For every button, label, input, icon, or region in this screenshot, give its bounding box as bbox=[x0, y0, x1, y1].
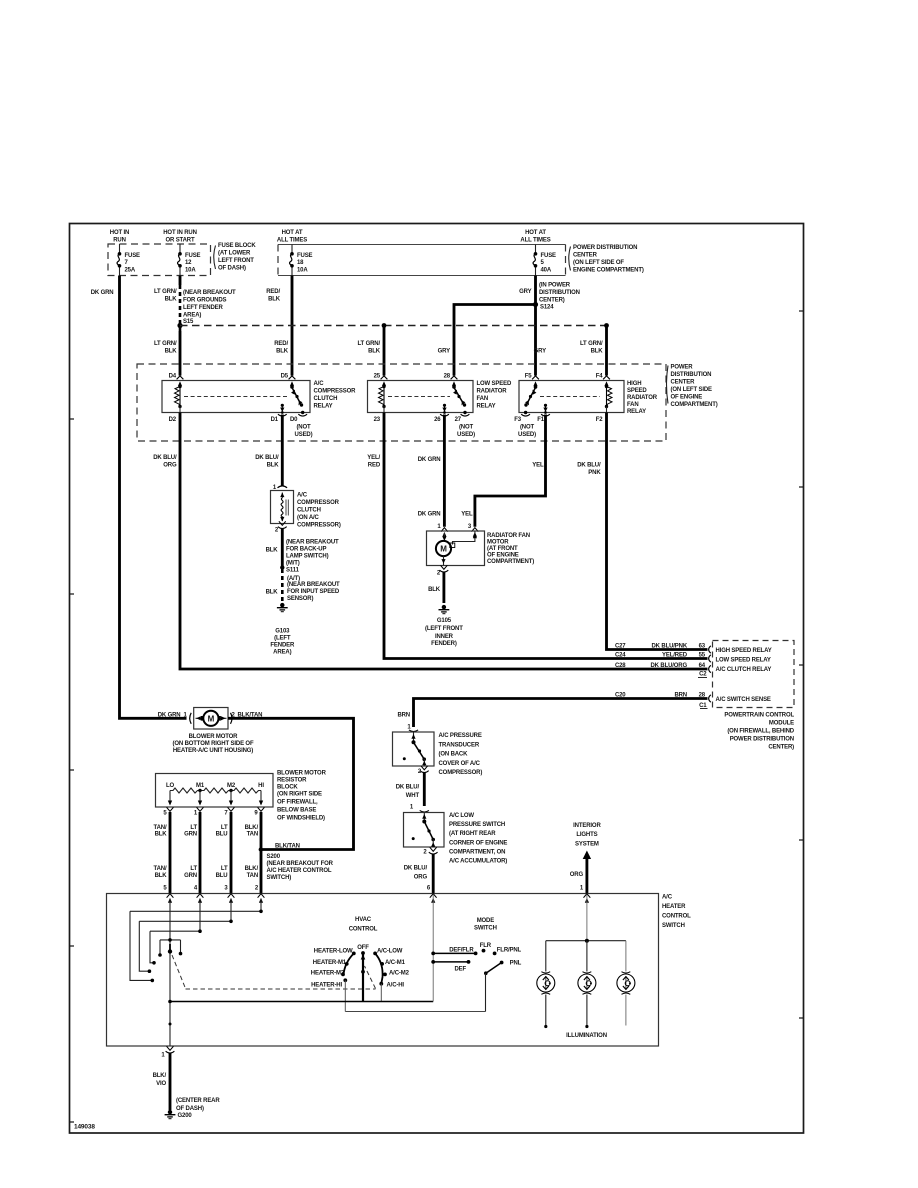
svg-text:BLK/TAN: BLK/TAN bbox=[275, 844, 300, 850]
svg-text:PNL: PNL bbox=[510, 961, 522, 967]
svg-text:OFF: OFF bbox=[357, 945, 369, 951]
svg-text:CLUTCH: CLUTCH bbox=[314, 396, 338, 402]
svg-text:BLK/: BLK/ bbox=[245, 825, 259, 831]
svg-text:BLK: BLK bbox=[165, 297, 178, 303]
svg-text:YEL/: YEL/ bbox=[367, 455, 380, 461]
svg-text:(M/T): (M/T) bbox=[286, 561, 300, 567]
svg-text:CENTER: CENTER bbox=[671, 380, 696, 386]
svg-text:BLOWER MOTOR: BLOWER MOTOR bbox=[189, 734, 239, 740]
svg-text:(NEAR BREAKOUT: (NEAR BREAKOUT bbox=[286, 540, 339, 546]
svg-text:ILLUMINATION: ILLUMINATION bbox=[566, 1033, 607, 1039]
svg-text:MODULE: MODULE bbox=[769, 721, 794, 727]
svg-text:D4: D4 bbox=[169, 374, 177, 380]
svg-text:A/C SWITCH SENSE: A/C SWITCH SENSE bbox=[716, 697, 771, 703]
svg-text:GRY: GRY bbox=[534, 349, 546, 355]
svg-text:D2: D2 bbox=[169, 417, 177, 423]
svg-text:DK BLU/: DK BLU/ bbox=[404, 866, 428, 872]
svg-text:RELAY: RELAY bbox=[627, 409, 646, 415]
svg-text:BLK: BLK bbox=[155, 832, 168, 838]
svg-text:18: 18 bbox=[297, 260, 304, 266]
svg-text:S111: S111 bbox=[286, 568, 300, 574]
svg-text:C2: C2 bbox=[699, 672, 707, 678]
svg-text:BRN: BRN bbox=[397, 713, 410, 719]
svg-text:OF WINDSHIELD): OF WINDSHIELD) bbox=[277, 816, 325, 822]
svg-text:YEL/RED: YEL/RED bbox=[662, 653, 688, 659]
svg-text:RED/: RED/ bbox=[274, 341, 288, 347]
svg-text:DEF: DEF bbox=[454, 967, 466, 973]
svg-text:COMPARTMENT, ON: COMPARTMENT, ON bbox=[449, 849, 505, 855]
svg-text:ORG: ORG bbox=[570, 872, 584, 878]
svg-text:OF ENGINE: OF ENGINE bbox=[487, 553, 519, 559]
svg-text:FLR: FLR bbox=[480, 943, 492, 949]
svg-text:FAN: FAN bbox=[627, 402, 639, 408]
svg-text:C28: C28 bbox=[615, 663, 626, 669]
svg-text:CORNER OF ENGINE: CORNER OF ENGINE bbox=[449, 840, 507, 846]
svg-text:LO: LO bbox=[166, 783, 175, 789]
svg-text:HIGH: HIGH bbox=[627, 381, 641, 387]
svg-text:F1: F1 bbox=[537, 417, 545, 423]
svg-text:BLK: BLK bbox=[591, 349, 604, 355]
svg-text:25A: 25A bbox=[125, 268, 136, 274]
svg-text:HIGH SPEED RELAY: HIGH SPEED RELAY bbox=[716, 648, 772, 654]
svg-text:F2: F2 bbox=[596, 417, 604, 423]
svg-text:LAMP SWITCH): LAMP SWITCH) bbox=[286, 554, 329, 560]
svg-text:10A: 10A bbox=[185, 268, 196, 274]
svg-text:PNK: PNK bbox=[588, 470, 601, 476]
svg-text:HVAC: HVAC bbox=[355, 917, 372, 923]
svg-text:M: M bbox=[208, 714, 215, 723]
svg-text:CENTER): CENTER) bbox=[539, 298, 565, 304]
svg-text:A/C: A/C bbox=[314, 381, 325, 387]
svg-text:A/C-M1: A/C-M1 bbox=[385, 960, 406, 966]
svg-text:BLK: BLK bbox=[266, 548, 279, 554]
svg-text:149038: 149038 bbox=[74, 1124, 95, 1131]
svg-text:VIO: VIO bbox=[156, 1081, 166, 1087]
svg-text:ALL TIMES: ALL TIMES bbox=[520, 238, 550, 244]
svg-text:BLK: BLK bbox=[267, 463, 280, 469]
svg-text:DK BLU/: DK BLU/ bbox=[255, 455, 279, 461]
svg-text:FUSE: FUSE bbox=[125, 253, 141, 259]
svg-text:INTERIOR: INTERIOR bbox=[573, 823, 601, 829]
svg-text:OF ENGINE: OF ENGINE bbox=[671, 395, 703, 401]
svg-text:12: 12 bbox=[185, 260, 192, 266]
svg-text:(ON LEFT SIDE OF: (ON LEFT SIDE OF bbox=[573, 260, 624, 266]
svg-text:(ON RIGHT SIDE: (ON RIGHT SIDE bbox=[277, 792, 322, 798]
svg-text:POWER: POWER bbox=[671, 365, 694, 371]
svg-text:POWER DISTRIBUTION: POWER DISTRIBUTION bbox=[573, 245, 637, 251]
svg-text:RELAY: RELAY bbox=[314, 404, 333, 410]
svg-text:AREA): AREA) bbox=[273, 650, 291, 656]
svg-text:YEL: YEL bbox=[461, 512, 473, 518]
svg-text:LT GRN/: LT GRN/ bbox=[154, 341, 177, 347]
svg-text:MOTOR: MOTOR bbox=[487, 540, 509, 546]
svg-text:BLU: BLU bbox=[216, 832, 228, 838]
svg-text:BLK: BLK bbox=[266, 590, 279, 596]
svg-text:DK GRN: DK GRN bbox=[418, 457, 441, 463]
svg-text:D0: D0 bbox=[290, 417, 298, 423]
svg-text:TRANSDUCER: TRANSDUCER bbox=[439, 742, 480, 748]
svg-text:HI: HI bbox=[258, 783, 264, 789]
svg-text:OF FIREWALL,: OF FIREWALL, bbox=[277, 800, 318, 806]
svg-text:CENTER): CENTER) bbox=[768, 745, 794, 751]
svg-text:(NOT: (NOT bbox=[296, 424, 311, 430]
svg-text:RED: RED bbox=[368, 463, 381, 469]
svg-text:27: 27 bbox=[455, 417, 462, 423]
svg-text:(AT RIGHT REAR: (AT RIGHT REAR bbox=[449, 831, 496, 837]
svg-text:FOR BACK-UP: FOR BACK-UP bbox=[286, 547, 326, 553]
svg-text:MODE: MODE bbox=[477, 918, 495, 924]
svg-text:RUN: RUN bbox=[113, 238, 126, 244]
svg-text:BLK/: BLK/ bbox=[153, 1073, 167, 1079]
svg-text:COMPRESSOR: COMPRESSOR bbox=[314, 389, 357, 395]
svg-text:HOT IN: HOT IN bbox=[110, 230, 129, 236]
svg-text:(AT FRONT: (AT FRONT bbox=[487, 546, 518, 552]
svg-text:COMPRESSOR): COMPRESSOR) bbox=[297, 523, 341, 529]
svg-text:(ON BACK: (ON BACK bbox=[439, 752, 469, 758]
svg-text:A/C: A/C bbox=[297, 493, 308, 499]
svg-text:FUSE: FUSE bbox=[185, 253, 201, 259]
svg-text:(IN POWER: (IN POWER bbox=[539, 283, 571, 289]
svg-text:YEL: YEL bbox=[532, 463, 544, 469]
svg-text:HOT AT: HOT AT bbox=[525, 230, 546, 236]
svg-text:(ON FIREWALL, BEHIND: (ON FIREWALL, BEHIND bbox=[727, 729, 794, 735]
svg-text:USED): USED) bbox=[518, 432, 536, 438]
svg-text:A/C-LOW: A/C-LOW bbox=[377, 948, 403, 954]
svg-text:ALL TIMES: ALL TIMES bbox=[277, 238, 307, 244]
svg-text:DISTRIBUTION: DISTRIBUTION bbox=[671, 372, 712, 378]
svg-text:A/C: A/C bbox=[662, 895, 673, 901]
svg-text:40A: 40A bbox=[541, 268, 552, 274]
svg-text:DK BLU/ORG: DK BLU/ORG bbox=[651, 663, 688, 669]
svg-text:M2: M2 bbox=[227, 783, 236, 789]
svg-text:OF DASH): OF DASH) bbox=[218, 266, 246, 272]
svg-text:S124: S124 bbox=[540, 305, 554, 311]
svg-text:DK BLU/: DK BLU/ bbox=[577, 463, 601, 469]
svg-text:FENDER: FENDER bbox=[270, 643, 295, 649]
svg-text:DK BLU/PNK: DK BLU/PNK bbox=[652, 644, 688, 650]
svg-text:A/C ACCUMULATOR): A/C ACCUMULATOR) bbox=[449, 859, 507, 865]
svg-text:RADIATOR: RADIATOR bbox=[627, 395, 658, 401]
svg-text:CONTROL: CONTROL bbox=[349, 927, 378, 933]
svg-text:COMPARTMENT): COMPARTMENT) bbox=[671, 402, 718, 408]
svg-text:DK BLU/: DK BLU/ bbox=[153, 455, 177, 461]
svg-text:G103: G103 bbox=[275, 629, 290, 635]
svg-text:G200: G200 bbox=[178, 1113, 193, 1119]
svg-text:SPEED: SPEED bbox=[627, 388, 647, 394]
svg-text:(LEFT FRONT: (LEFT FRONT bbox=[425, 626, 463, 632]
svg-text:LT GRN/: LT GRN/ bbox=[154, 289, 177, 295]
svg-text:FUSE: FUSE bbox=[541, 253, 557, 259]
svg-text:LT: LT bbox=[221, 825, 228, 831]
svg-text:(LEFT: (LEFT bbox=[274, 636, 291, 642]
svg-text:(CENTER REAR: (CENTER REAR bbox=[176, 1098, 220, 1104]
svg-text:DK BLU/: DK BLU/ bbox=[396, 785, 420, 791]
svg-text:LEFT FENDER: LEFT FENDER bbox=[183, 305, 223, 311]
svg-text:TAN/: TAN/ bbox=[154, 825, 167, 831]
svg-text:HEATER: HEATER bbox=[662, 904, 686, 910]
svg-text:F5: F5 bbox=[525, 374, 533, 380]
svg-text:ORG: ORG bbox=[414, 875, 428, 881]
svg-text:LT: LT bbox=[190, 825, 197, 831]
svg-text:PRESSURE SWITCH: PRESSURE SWITCH bbox=[449, 822, 505, 828]
svg-text:(NEAR BREAKOUT: (NEAR BREAKOUT bbox=[183, 290, 236, 296]
svg-text:LOW SPEED: LOW SPEED bbox=[477, 381, 512, 387]
svg-text:(NEAR BREAKOUT: (NEAR BREAKOUT bbox=[287, 582, 340, 588]
svg-text:POWER DISTRIBUTION: POWER DISTRIBUTION bbox=[730, 737, 794, 743]
svg-text:HOT IN RUN: HOT IN RUN bbox=[163, 230, 197, 236]
svg-text:23: 23 bbox=[374, 417, 381, 423]
svg-text:F4: F4 bbox=[596, 374, 604, 380]
svg-text:BLK: BLK bbox=[155, 873, 168, 879]
svg-text:HEATER-A/C UNIT HOUSING): HEATER-A/C UNIT HOUSING) bbox=[173, 748, 253, 754]
svg-text:DK GRN: DK GRN bbox=[91, 290, 114, 296]
svg-text:SENSOR): SENSOR) bbox=[287, 596, 313, 602]
svg-text:BLK: BLK bbox=[165, 349, 178, 355]
svg-text:GRN: GRN bbox=[184, 873, 197, 879]
svg-text:GRY: GRY bbox=[519, 289, 531, 295]
svg-text:C24: C24 bbox=[615, 653, 626, 659]
svg-text:F3: F3 bbox=[514, 417, 522, 423]
svg-text:LT: LT bbox=[221, 866, 228, 872]
svg-text:COMPARTMENT): COMPARTMENT) bbox=[487, 559, 534, 565]
svg-text:BLK/: BLK/ bbox=[245, 866, 259, 872]
svg-text:BLOWER MOTOR: BLOWER MOTOR bbox=[277, 771, 327, 777]
svg-text:ENGINE COMPARTMENT): ENGINE COMPARTMENT) bbox=[573, 267, 644, 273]
svg-text:FLR/PNL: FLR/PNL bbox=[497, 947, 522, 953]
svg-text:BLK: BLK bbox=[428, 587, 441, 593]
svg-text:(ON A/C: (ON A/C bbox=[297, 515, 320, 521]
svg-text:28: 28 bbox=[444, 374, 451, 380]
svg-text:FENDER): FENDER) bbox=[431, 641, 457, 647]
svg-text:COMPRESSOR): COMPRESSOR) bbox=[439, 770, 483, 776]
svg-text:SWITCH: SWITCH bbox=[474, 926, 497, 932]
svg-text:OR START: OR START bbox=[165, 238, 195, 244]
svg-text:USED): USED) bbox=[457, 432, 475, 438]
svg-text:RADIATOR FAN: RADIATOR FAN bbox=[487, 533, 530, 539]
svg-text:M: M bbox=[440, 545, 447, 554]
svg-text:64: 64 bbox=[699, 663, 706, 669]
svg-text:(NOT: (NOT bbox=[459, 424, 474, 430]
svg-text:COMPRESSOR: COMPRESSOR bbox=[297, 500, 340, 506]
svg-text:RESISTOR: RESISTOR bbox=[277, 778, 307, 784]
svg-text:TAN: TAN bbox=[247, 873, 258, 879]
svg-text:DISTRIBUTION: DISTRIBUTION bbox=[539, 290, 580, 296]
svg-text:FOR INPUT SPEED: FOR INPUT SPEED bbox=[287, 589, 340, 595]
svg-text:S200: S200 bbox=[267, 854, 281, 860]
svg-text:S15: S15 bbox=[183, 319, 194, 325]
svg-text:(NOT: (NOT bbox=[520, 424, 535, 430]
svg-text:TAN: TAN bbox=[247, 832, 258, 838]
svg-text:A/C-M2: A/C-M2 bbox=[389, 971, 410, 977]
svg-text:TAN/: TAN/ bbox=[154, 866, 167, 872]
svg-text:SWITCH): SWITCH) bbox=[267, 875, 292, 881]
svg-text:BELOW BASE: BELOW BASE bbox=[277, 808, 316, 814]
svg-text:ORG: ORG bbox=[163, 463, 177, 469]
svg-text:SYSTEM: SYSTEM bbox=[575, 842, 599, 848]
svg-text:CLUTCH: CLUTCH bbox=[297, 508, 321, 514]
svg-text:HEATER-M2: HEATER-M2 bbox=[311, 971, 345, 977]
svg-text:BLK: BLK bbox=[368, 349, 381, 355]
svg-text:COVER OF A/C: COVER OF A/C bbox=[439, 761, 481, 767]
svg-text:55: 55 bbox=[699, 653, 706, 659]
svg-text:26: 26 bbox=[434, 417, 441, 423]
svg-text:A/C LOW: A/C LOW bbox=[449, 813, 474, 819]
svg-text:FAN: FAN bbox=[477, 396, 489, 402]
svg-text:A/C-HI: A/C-HI bbox=[387, 982, 405, 988]
svg-text:LEFT FRONT: LEFT FRONT bbox=[218, 258, 254, 264]
svg-text:HEATER-M1: HEATER-M1 bbox=[313, 960, 347, 966]
svg-text:LT GRN/: LT GRN/ bbox=[357, 341, 380, 347]
svg-text:A/C CLUTCH RELAY: A/C CLUTCH RELAY bbox=[716, 667, 772, 673]
svg-text:HOT AT: HOT AT bbox=[282, 230, 303, 236]
svg-text:M1: M1 bbox=[196, 783, 205, 789]
svg-text:BLOCK: BLOCK bbox=[277, 785, 298, 791]
svg-text:A/C HEATER CONTROL: A/C HEATER CONTROL bbox=[267, 868, 332, 874]
svg-text:FUSE BLOCK: FUSE BLOCK bbox=[218, 243, 256, 249]
svg-text:25: 25 bbox=[374, 374, 381, 380]
svg-text:CONTROL: CONTROL bbox=[662, 914, 691, 920]
svg-text:RELAY: RELAY bbox=[477, 404, 496, 410]
svg-text:RED/: RED/ bbox=[266, 289, 280, 295]
svg-text:WHT: WHT bbox=[406, 793, 420, 799]
svg-text:GRY: GRY bbox=[438, 349, 450, 355]
svg-text:D5: D5 bbox=[281, 374, 289, 380]
svg-text:FUSE: FUSE bbox=[297, 253, 313, 259]
svg-text:63: 63 bbox=[699, 644, 706, 650]
svg-text:BLU: BLU bbox=[216, 873, 228, 879]
svg-text:USED): USED) bbox=[295, 432, 313, 438]
svg-text:GRN: GRN bbox=[184, 832, 197, 838]
svg-text:LT: LT bbox=[190, 866, 197, 872]
svg-text:(ON BOTTOM RIGHT SIDE OF: (ON BOTTOM RIGHT SIDE OF bbox=[173, 741, 254, 747]
svg-text:POWERTRAIN CONTROL: POWERTRAIN CONTROL bbox=[724, 713, 794, 719]
svg-text:A/C PRESSURE: A/C PRESSURE bbox=[439, 733, 482, 739]
svg-text:LT GRN/: LT GRN/ bbox=[580, 341, 603, 347]
svg-text:(NEAR BREAKOUT FOR: (NEAR BREAKOUT FOR bbox=[267, 861, 334, 867]
svg-text:(AT LOWER: (AT LOWER bbox=[218, 251, 251, 257]
svg-text:DK GRN: DK GRN bbox=[418, 512, 441, 518]
svg-text:DK GRN: DK GRN bbox=[158, 713, 181, 719]
svg-text:LIGHTS: LIGHTS bbox=[576, 832, 597, 838]
svg-text:SWITCH: SWITCH bbox=[662, 923, 685, 929]
svg-text:10A: 10A bbox=[297, 268, 308, 274]
svg-text:G105: G105 bbox=[437, 618, 452, 624]
svg-text:AREA): AREA) bbox=[183, 313, 201, 319]
svg-text:HEATER-HI: HEATER-HI bbox=[311, 982, 342, 988]
svg-text:HEATER-LOW: HEATER-LOW bbox=[314, 948, 353, 954]
svg-text:(ON LEFT SIDE: (ON LEFT SIDE bbox=[671, 387, 713, 393]
svg-text:RADIATOR: RADIATOR bbox=[477, 389, 508, 395]
svg-text:C27: C27 bbox=[615, 644, 626, 650]
svg-text:BLK: BLK bbox=[268, 297, 281, 303]
svg-text:OF DASH): OF DASH) bbox=[176, 1106, 204, 1112]
svg-text:FOR GROUNDS: FOR GROUNDS bbox=[183, 298, 226, 304]
svg-text:D1: D1 bbox=[271, 417, 279, 423]
svg-text:LOW SPEED RELAY: LOW SPEED RELAY bbox=[716, 658, 771, 664]
svg-text:CENTER: CENTER bbox=[573, 252, 598, 258]
svg-text:INNER: INNER bbox=[435, 634, 454, 640]
svg-text:BLK: BLK bbox=[276, 349, 289, 355]
